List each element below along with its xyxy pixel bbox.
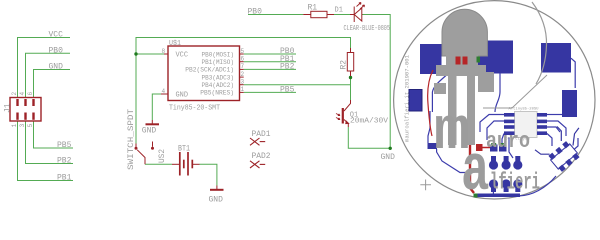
svg-text:PB5: PB5 (57, 141, 72, 150)
svg-text:Tiny85-20-SMT: Tiny85-20-SMT (169, 105, 220, 113)
svg-text:BT1: BT1 (178, 144, 190, 153)
svg-text:1: 1 (241, 86, 245, 93)
svg-text:a: a (461, 134, 490, 205)
svg-text:5: 5 (241, 48, 245, 55)
svg-text:6: 6 (27, 92, 34, 96)
svg-text:GND: GND (381, 153, 396, 162)
svg-text:U$1: U$1 (169, 40, 181, 48)
svg-text:1: 1 (11, 123, 18, 127)
svg-text:auro: auro (486, 129, 530, 154)
svg-text:R2: R2 (340, 60, 349, 70)
svg-text:GND: GND (49, 63, 64, 72)
svg-text:PB2: PB2 (57, 157, 72, 166)
svg-text:3: 3 (241, 79, 245, 86)
svg-text:PB4(ADC2): PB4(ADC2) (202, 82, 235, 89)
svg-text:4: 4 (19, 92, 26, 96)
svg-text:PB1(MISO): PB1(MISO) (202, 59, 235, 66)
svg-text:J1: J1 (4, 103, 13, 113)
svg-text:20mA/30V: 20mA/30V (350, 118, 389, 126)
svg-text:VCC: VCC (176, 52, 189, 60)
svg-text:PB0(MOSI): PB0(MOSI) (202, 51, 235, 58)
svg-text:VCC: VCC (49, 31, 64, 40)
svg-text:PAD1: PAD1 (252, 130, 271, 139)
svg-text:5: 5 (27, 123, 34, 127)
svg-text:PB3(ADC3): PB3(ADC3) (202, 74, 235, 81)
svg-text:lfieri: lfieri (490, 170, 540, 196)
svg-text:D1: D1 (335, 7, 343, 15)
svg-text:R1: R1 (308, 4, 318, 13)
svg-text:SWITCH_SPDT: SWITCH_SPDT (127, 109, 136, 170)
svg-text:4: 4 (162, 88, 166, 95)
svg-text:GND: GND (176, 92, 189, 100)
svg-text:PB5(NRES): PB5(NRES) (200, 90, 234, 97)
svg-text:PAD2: PAD2 (252, 152, 271, 161)
svg-text:PB2(SCK/ADC1): PB2(SCK/ADC1) (185, 67, 234, 74)
svg-text:GND: GND (142, 127, 157, 136)
svg-text:PB1: PB1 (57, 174, 72, 183)
svg-text:2: 2 (241, 71, 245, 78)
svg-text:US2: US2 (158, 149, 167, 163)
svg-text:PB0: PB0 (248, 8, 263, 17)
svg-text:GND: GND (209, 196, 224, 205)
svg-text:6: 6 (241, 56, 245, 63)
svg-text:7: 7 (241, 63, 245, 70)
svg-text:PB0: PB0 (49, 47, 64, 56)
svg-text:PB2: PB2 (280, 63, 295, 72)
svg-text:PB5: PB5 (280, 86, 295, 95)
svg-text:2: 2 (11, 92, 18, 96)
svg-text:8: 8 (162, 48, 166, 55)
svg-text:3: 3 (19, 123, 26, 127)
svg-text:CLEAR-BLUE-0805: CLEAR-BLUE-0805 (344, 25, 391, 33)
